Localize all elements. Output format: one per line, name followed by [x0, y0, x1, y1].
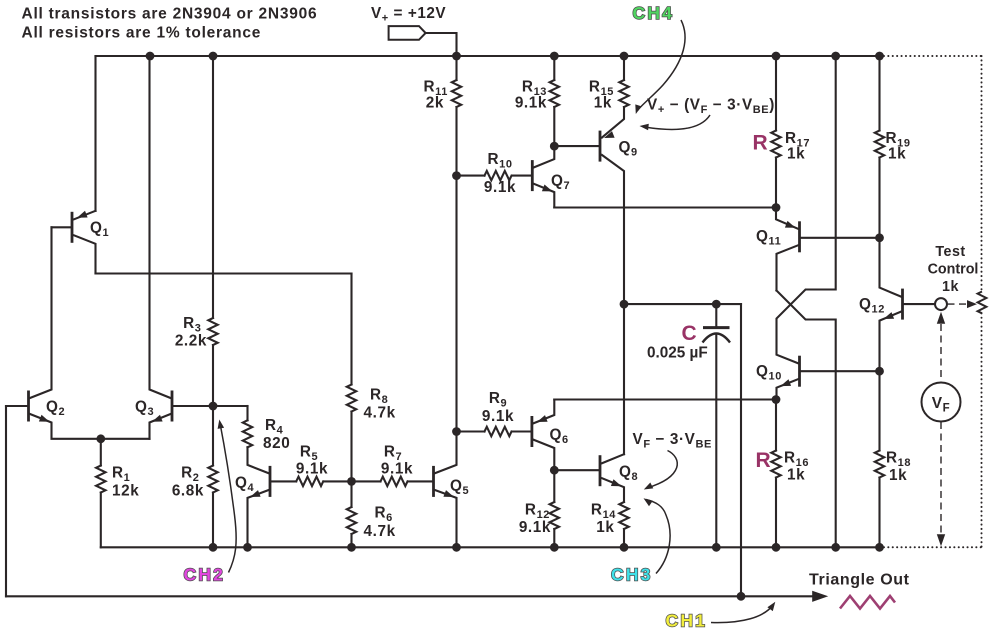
svg-text:9.1k: 9.1k	[482, 408, 514, 425]
svg-text:CH3: CH3	[611, 565, 653, 585]
svg-text:Test: Test	[935, 244, 965, 260]
svg-text:All resistors are 1% tolerance: All resistors are 1% tolerance	[22, 24, 262, 41]
svg-text:9.1k: 9.1k	[484, 179, 516, 196]
svg-text:820: 820	[263, 435, 290, 452]
svg-text:4.7k: 4.7k	[364, 523, 396, 540]
svg-text:1k: 1k	[787, 467, 805, 484]
svg-text:4.7k: 4.7k	[364, 405, 396, 422]
svg-text:R: R	[753, 132, 769, 155]
svg-text:1k: 1k	[888, 146, 906, 163]
svg-text:2k: 2k	[426, 95, 444, 112]
svg-text:1k: 1k	[594, 95, 612, 112]
svg-text:1k: 1k	[942, 279, 959, 295]
svg-text:1k: 1k	[596, 519, 614, 536]
svg-text:R: R	[756, 449, 772, 472]
svg-text:0.025 µF: 0.025 µF	[647, 345, 708, 362]
svg-text:CH2: CH2	[184, 565, 226, 585]
svg-text:6.8k: 6.8k	[172, 483, 204, 500]
svg-text:C: C	[682, 322, 698, 345]
svg-text:2.2k: 2.2k	[175, 333, 207, 350]
svg-text:CH1: CH1	[666, 611, 708, 631]
svg-text:9.1k: 9.1k	[515, 95, 547, 112]
svg-text:Triangle Out: Triangle Out	[809, 572, 910, 589]
svg-text:CH4: CH4	[633, 3, 675, 23]
svg-text:12k: 12k	[112, 483, 139, 500]
svg-text:9.1k: 9.1k	[519, 519, 551, 536]
svg-text:9.1k: 9.1k	[296, 461, 328, 478]
svg-text:1k: 1k	[889, 467, 907, 484]
svg-text:9.1k: 9.1k	[381, 461, 413, 478]
svg-text:Control: Control	[928, 262, 979, 278]
svg-text:All transistors are 2N3904 or: All transistors are 2N3904 or 2N3906	[22, 5, 318, 22]
svg-text:1k: 1k	[787, 146, 805, 163]
